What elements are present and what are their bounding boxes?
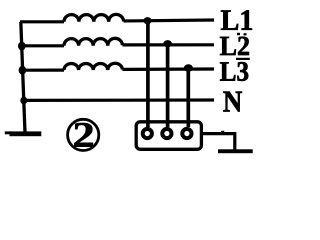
wire small stub above box-right wire	[221, 131, 224, 134]
wire left bus vertical	[21, 22, 25, 133]
wire L2 right segment	[122, 43, 214, 46]
terminal ring 2	[162, 129, 171, 138]
ground (right)	[218, 149, 253, 153]
wire L1 left segment	[20, 20, 64, 23]
label L2	[220, 37, 249, 55]
speck artifacts above L2 label	[237, 33, 240, 35]
bar artifact above L3 label	[236, 58, 250, 60]
wire L3 right segment	[122, 67, 214, 71]
node junction on bus at N	[20, 97, 27, 105]
callout circle 2	[68, 119, 99, 150]
terminal ring 1	[143, 129, 152, 138]
wire L1 right segment	[124, 20, 214, 21]
node junction on L3	[184, 64, 193, 72]
node junction on L2	[163, 40, 172, 47]
wire L2 left segment	[21, 44, 64, 47]
callout numeral 2	[74, 123, 93, 147]
wire vertical drop from L1	[146, 21, 150, 127]
inductor L1 coil	[64, 14, 124, 21]
wire vertical drop from L2	[166, 44, 170, 127]
label N	[223, 92, 242, 112]
inductor L2 coil	[64, 38, 122, 46]
label L3	[220, 62, 248, 81]
node junction on L1	[144, 17, 152, 24]
wire L3 left segment	[21, 68, 64, 71]
wire N	[22, 98, 214, 102]
terminal ring 3	[182, 129, 191, 138]
ground (left)	[10, 131, 42, 136]
inductor L3 coil	[64, 63, 122, 70]
wire from box to right ground	[203, 134, 235, 151]
wire vertical drop from L3	[186, 68, 190, 127]
surge arrester box	[136, 122, 201, 150]
node junction on bus at L2	[18, 42, 26, 51]
label L1	[221, 10, 252, 30]
node junction on bus at L3	[19, 66, 27, 75]
